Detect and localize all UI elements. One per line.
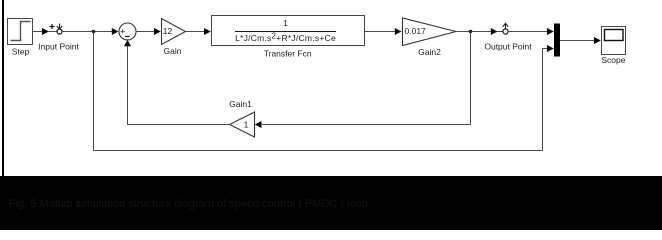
node junction B (tap to inner feedback) <box>469 30 473 34</box>
caption text <box>9 198 368 210</box>
svg-text:12: 12 <box>163 26 173 36</box>
svg-text:Output Point: Output Point <box>484 42 532 52</box>
scope block Scope <box>601 27 625 66</box>
wire Gain1 to Sum bottom <box>124 40 230 125</box>
step source block Step <box>8 19 33 57</box>
svg-text:0.017: 0.017 <box>405 26 427 36</box>
input point marker (linearization input) <box>38 24 79 52</box>
output point marker (linearization output) <box>484 23 532 51</box>
svg-text:+: + <box>120 27 125 37</box>
wire Step to Input Point <box>33 28 49 35</box>
svg-text:L*J/Cm.s2+R*J/Cm.s+Ce: L*J/Cm.s2+R*J/Cm.s+Ce <box>235 31 336 43</box>
svg-text:1: 1 <box>244 120 249 130</box>
transfer function block Transfer Fcn <box>212 16 365 59</box>
wire Output Point to Mux input 1 <box>508 28 554 35</box>
wire Input Point to Sum <box>62 28 118 35</box>
caption bar <box>0 176 662 230</box>
wire Sum to Gain <box>136 28 161 35</box>
mux block Mux <box>554 24 560 57</box>
svg-text:Transfer Fcn: Transfer Fcn <box>264 48 312 58</box>
svg-text:Gain: Gain <box>164 46 182 56</box>
svg-text:Scope: Scope <box>601 55 625 65</box>
gain block Gain value 12 <box>162 19 186 57</box>
svg-text:Gain2: Gain2 <box>418 47 441 57</box>
wire outer loop to Mux input 2 <box>543 45 554 52</box>
wire Mux to Scope <box>560 37 601 44</box>
wire outer loop right vertical up to Mux <box>542 49 544 151</box>
svg-text:Gain1: Gain1 <box>229 99 252 109</box>
wire outer loop bottom horizontal <box>94 150 543 152</box>
left border line <box>2 0 4 176</box>
wire inner feedback horizontal to Gain1 <box>255 121 471 128</box>
wire inner feedback vertical from node B <box>470 32 472 125</box>
wire Gain to Transfer Fcn <box>186 28 211 35</box>
svg-text:1: 1 <box>283 18 288 28</box>
wire Gain2 to Output Point <box>456 28 498 35</box>
svg-text:Input Point: Input Point <box>38 41 79 51</box>
node junction A (tap to outer loop) <box>92 30 96 34</box>
svg-text:Step: Step <box>12 47 30 57</box>
wire outer loop from node A down <box>93 32 95 151</box>
gain block Gain2 value 0.017 <box>403 18 457 57</box>
gain block Gain1 value 1 (left pointing) <box>229 99 254 137</box>
sum junction Sum <box>119 23 136 40</box>
wire Transfer Fcn to Gain2 <box>365 28 402 35</box>
